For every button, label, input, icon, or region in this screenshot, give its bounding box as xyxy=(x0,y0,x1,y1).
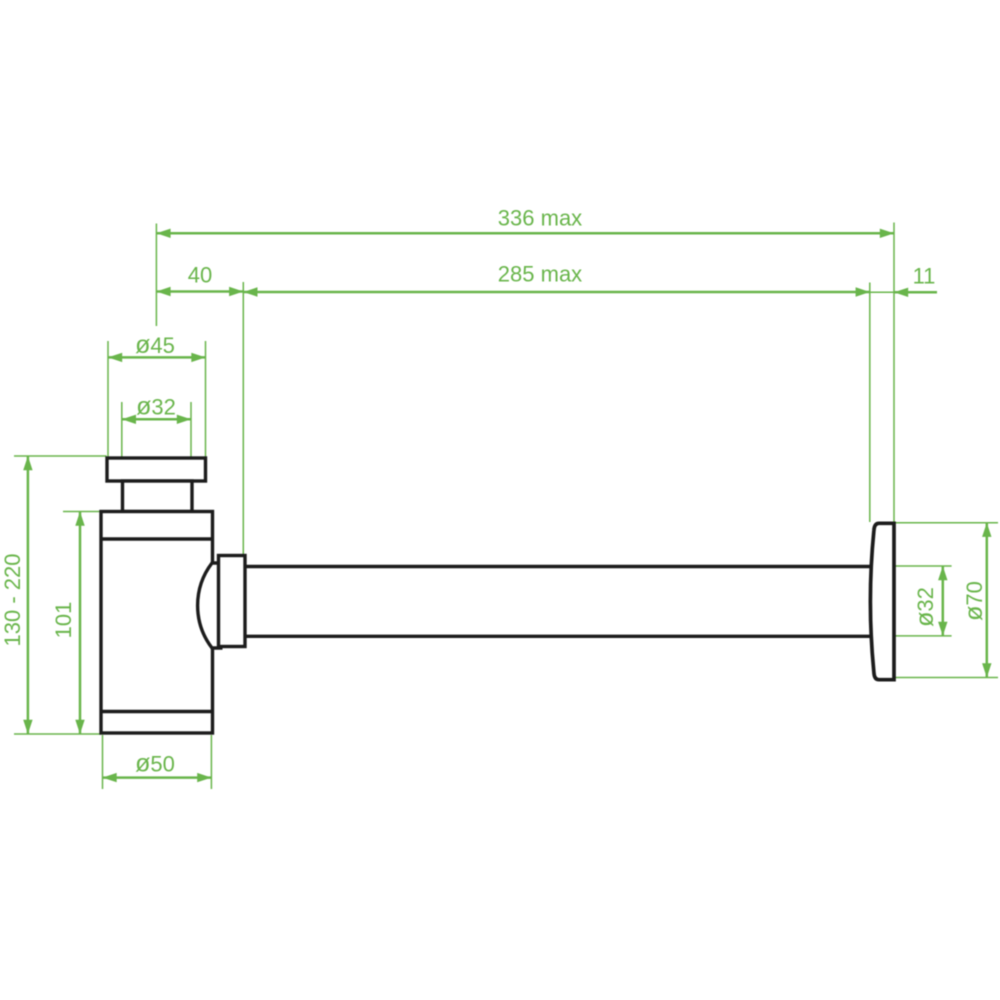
svg-text:285 max: 285 max xyxy=(498,262,582,287)
svg-text:40: 40 xyxy=(188,263,212,288)
svg-text:ø32: ø32 xyxy=(136,393,176,421)
svg-text:101: 101 xyxy=(51,602,76,639)
svg-text:ø32: ø32 xyxy=(911,587,939,627)
svg-text:ø45: ø45 xyxy=(135,331,175,359)
svg-text:130 - 220: 130 - 220 xyxy=(0,554,25,647)
svg-text:ø70: ø70 xyxy=(960,581,988,621)
svg-text:336 max: 336 max xyxy=(498,206,582,231)
svg-text:ø50: ø50 xyxy=(135,750,175,778)
svg-text:11: 11 xyxy=(913,264,936,289)
